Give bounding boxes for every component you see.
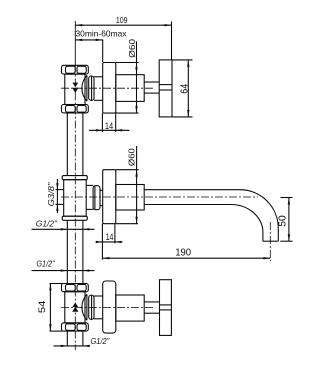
dim G3/8 [56,179,64,213]
pipe stub below bottom valve [67,331,83,345]
dim 54 [49,284,62,332]
tee lower flange [62,216,87,220]
main vertical centerline [74,21,76,65]
spout housing [116,185,144,211]
top handle bar [159,60,172,117]
top valve axis centerline [61,87,153,89]
bottom valve lower hex nut [62,323,89,331]
bottom valve housing [116,295,144,321]
tee wall neck [100,190,103,205]
top handle hub bore [159,85,172,90]
svg-text:30min-60max: 30min-60max [76,28,128,38]
pipe between tee and bottom valve [67,220,83,283]
spout axis centerline [61,196,258,198]
pipe between top valve and tee [67,113,83,176]
label G1/2 lower [32,269,95,271]
svg-text:109: 109 [116,16,128,25]
svg-text:G1/2": G1/2" [91,337,111,346]
spout tube [144,190,278,242]
tee body [64,180,86,217]
svg-text:G1/2": G1/2" [36,220,58,229]
dim G1/2 bottom [54,345,91,347]
top valve body [65,74,85,104]
spout outlet vertical centerline [269,222,271,261]
bottom valve upper hex nut [62,284,89,292]
dim 109 [75,22,171,60]
bottom handle stem [144,302,159,313]
dim 50 [280,198,292,242]
top valve dome [82,75,87,101]
tee shoulder [86,185,93,209]
top handle stem [144,82,159,93]
svg-text:54: 54 [37,301,47,314]
top valve upper hex nut [62,65,89,74]
dim 190 [102,257,270,259]
bottom handle bar [160,280,172,336]
svg-text:14: 14 [105,121,113,132]
top valve housing [116,75,144,102]
bottom valve dome [82,294,87,320]
tee union ring [93,186,100,210]
bottom handle hub bore [160,305,172,310]
svg-text:14: 14 [106,232,114,243]
svg-text:50: 50 [277,215,289,227]
middle escutcheon plate [103,170,116,224]
dim 64 [173,60,193,117]
bottom valve axis centerline [61,307,153,309]
svg-text:64: 64 [179,84,191,94]
top valve flow arrow (down) [72,83,78,93]
dim 30min-60max [75,39,103,62]
top valve union ring [87,75,94,101]
svg-text:G3/8": G3/8" [47,181,56,206]
svg-text:190: 190 [175,246,191,258]
bottom escutcheon plate [103,281,116,333]
bottom valve union ring [87,294,94,320]
dim diameter 60 top [116,41,139,113]
dim 14 middle [96,224,123,260]
bottom valve flow arrow (up) [72,303,78,312]
dim 14 top [89,113,130,132]
tee upper flange [62,176,87,180]
top valve lower hex nut [62,105,89,113]
label G1/2 upper [32,228,95,230]
svg-text:G1/2": G1/2" [36,260,55,269]
top valve wall neck [94,77,103,101]
top escutcheon plate [103,63,116,114]
svg-text:Ø60: Ø60 [127,39,137,58]
svg-text:Ø60: Ø60 [127,148,137,166]
bottom valve body [65,292,85,323]
dim diameter 60 middle [116,146,139,224]
bottom valve wall neck [94,296,103,319]
